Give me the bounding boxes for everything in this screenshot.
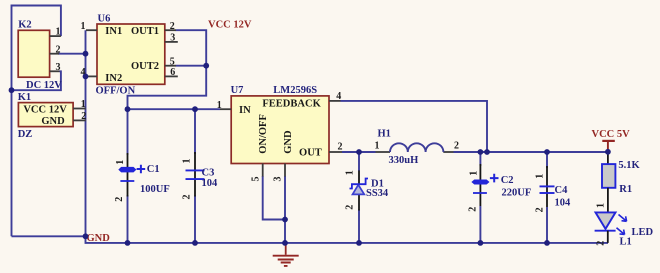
ground symbol (285, 243, 287, 255)
svg-text:1: 1 (375, 141, 380, 152)
wire U7 feedback loop (341, 101, 488, 152)
svg-text:IN1: IN1 (105, 26, 122, 37)
node GND left jog junction (83, 233, 89, 239)
svg-text:1: 1 (182, 159, 193, 164)
node C2 top junction (478, 149, 484, 155)
svg-text:FEEDBACK: FEEDBACK (262, 98, 321, 109)
svg-text:2: 2 (534, 207, 545, 212)
svg-text:1: 1 (81, 21, 86, 32)
svg-text:2: 2 (182, 195, 193, 200)
U6 pin 3 (165, 41, 178, 43)
switch U6 (97, 24, 165, 84)
svg-text:1: 1 (81, 99, 86, 110)
node VCC5V junction (605, 149, 611, 155)
U6 pin 2 (165, 29, 176, 31)
svg-text:100UF: 100UF (140, 184, 170, 195)
wire GND left horizontal (12, 235, 86, 237)
svg-text:R1: R1 (619, 184, 632, 195)
svg-text:ON/OFF: ON/OFF (258, 114, 269, 154)
svg-text:3: 3 (170, 33, 175, 44)
U7 pin 3 (284, 164, 286, 177)
U6 pin 1 (86, 29, 97, 31)
LED L1 (596, 212, 616, 229)
capacitor C3 104 (194, 152, 196, 197)
wire U6 pin2 OUT1 down-left to 12V rail (128, 30, 207, 109)
svg-text:DC 12V: DC 12V (26, 80, 62, 91)
svg-text:LED: LED (632, 227, 654, 238)
svg-text:5: 5 (170, 56, 175, 67)
svg-text:C2: C2 (501, 175, 514, 186)
K1 pin 2 (73, 119, 86, 121)
svg-text:H1: H1 (378, 128, 391, 139)
svg-text:2: 2 (56, 44, 61, 55)
K1 pin 1 (73, 108, 86, 110)
svg-text:K1: K1 (18, 92, 31, 103)
svg-text:5: 5 (251, 177, 262, 182)
U6 pin 4 (86, 75, 97, 77)
svg-text:1: 1 (115, 160, 126, 165)
wire C2 top lead (479, 152, 481, 166)
node D1 top junction (356, 149, 362, 155)
svg-text:1: 1 (56, 27, 61, 38)
node U6 pin5 junction (203, 63, 209, 69)
node D1 bottom junction (356, 240, 362, 246)
node U7 pins 5-3 junction (282, 217, 288, 223)
svg-text:104: 104 (202, 178, 219, 189)
wire U7 gnd pin down to rail (284, 176, 286, 243)
node C3 top junction (192, 106, 198, 112)
svg-text:VCC 12V: VCC 12V (208, 19, 252, 30)
svg-text:SS34: SS34 (366, 188, 389, 199)
wire K2 pin2 to mid vertical (58, 53, 86, 55)
svg-text:GND: GND (87, 233, 111, 244)
K2 pin 1 (50, 35, 61, 37)
wire D1 bottom lead (358, 210, 360, 243)
svg-text:C4: C4 (555, 185, 569, 196)
regulator U7 LM2596S (231, 96, 329, 164)
resistor R1 5.1K (607, 152, 609, 164)
wire 12V rail to U7 IN (128, 108, 221, 110)
node 12V rail / C1 junction (125, 106, 131, 112)
node K2 pin2 junction (83, 51, 89, 57)
svg-text:2: 2 (338, 142, 343, 153)
wire C3 top lead (194, 109, 196, 154)
svg-text:OUT2: OUT2 (131, 61, 159, 72)
svg-text:5.1K: 5.1K (618, 160, 640, 171)
node feedback junction (484, 149, 490, 155)
wire U7 on/off + gnd pins to ground (263, 176, 285, 220)
svg-text:104: 104 (555, 198, 572, 209)
svg-text:1: 1 (217, 100, 222, 111)
capacitor C1 100UF electrolytic (127, 153, 129, 197)
svg-text:LM2596S: LM2596S (273, 85, 317, 96)
node C4 top junction (544, 149, 550, 155)
svg-text:U6: U6 (98, 13, 111, 24)
svg-text:IN: IN (239, 105, 251, 116)
svg-text:OUT: OUT (299, 148, 322, 159)
node U6 pin4 junction (83, 74, 89, 80)
node ground junction (282, 240, 288, 246)
svg-text:U7: U7 (231, 85, 244, 96)
connector K1 (18, 103, 73, 127)
svg-text:OFF/ON: OFF/ON (96, 86, 136, 97)
U7 pin 5 (262, 164, 264, 177)
svg-text:220UF: 220UF (502, 188, 532, 199)
capacitor C4 104 (546, 166, 548, 207)
svg-text:VCC 5V: VCC 5V (592, 129, 631, 140)
wire GND bottom rail (86, 236, 609, 243)
LED arrows (619, 215, 627, 222)
wire D1 top lead (358, 152, 360, 171)
node C3 bottom junction (192, 240, 198, 246)
wire U6 pin5 to OUT vertical (176, 65, 207, 67)
svg-text:VCC 12V: VCC 12V (23, 104, 67, 115)
svg-text:330uH: 330uH (389, 155, 419, 166)
U6 pin 5 (165, 65, 176, 67)
U7 pin 2 (329, 151, 342, 153)
wire C4 bottom lead (546, 207, 548, 243)
svg-text:2: 2 (454, 141, 459, 152)
svg-text:OUT1: OUT1 (131, 26, 159, 37)
svg-text:DZ: DZ (18, 129, 33, 140)
svg-text:2: 2 (468, 207, 479, 212)
connector K2 (18, 30, 49, 77)
node C4 bottom junction (544, 240, 550, 246)
svg-text:2: 2 (344, 205, 355, 210)
svg-text:6: 6 (170, 67, 175, 78)
diode D1 SS34 schottky (358, 171, 360, 185)
K2 pin 3 (50, 70, 60, 72)
U7 pin 4 (329, 100, 341, 102)
svg-text:1: 1 (534, 174, 545, 179)
svg-text:GND: GND (41, 116, 65, 127)
wire OUT rail left segment (342, 151, 376, 153)
svg-text:2: 2 (114, 197, 125, 202)
svg-text:3: 3 (56, 62, 61, 73)
svg-text:2: 2 (170, 21, 175, 32)
wire C3 bottom lead (194, 196, 196, 243)
wire C2 bottom lead (479, 206, 481, 243)
capacitor C2 220UF electrolytic (479, 164, 481, 206)
wire C1 bottom lead (127, 195, 129, 243)
wire C4 top lead (546, 152, 548, 168)
svg-text:K2: K2 (18, 19, 31, 30)
svg-text:1: 1 (344, 170, 355, 175)
svg-text:C3: C3 (202, 168, 215, 179)
U6 pin 6 (165, 75, 178, 77)
svg-text:IN2: IN2 (105, 73, 122, 84)
svg-text:1: 1 (595, 203, 606, 208)
node C1 bottom junction (125, 240, 131, 246)
wire C1 top lead (127, 109, 129, 155)
svg-text:2: 2 (81, 111, 86, 122)
svg-text:4: 4 (336, 91, 341, 102)
svg-text:2: 2 (595, 241, 606, 246)
svg-text:1: 1 (468, 171, 479, 176)
svg-text:C1: C1 (147, 164, 160, 175)
node C2 bottom junction (478, 240, 484, 246)
inductor H1 330uH (376, 151, 391, 153)
node DC return junction (9, 87, 15, 93)
wire K2 pin3 return to left rail (12, 71, 61, 90)
wire mid vertical U6 inputs / K1 (85, 30, 87, 236)
U7 pin 1 (220, 108, 231, 110)
svg-text:GND: GND (283, 130, 294, 154)
K2 pin 2 (50, 53, 59, 55)
svg-text:3: 3 (273, 177, 284, 182)
wire OUT rail right segment (454, 151, 609, 153)
svg-text:L1: L1 (620, 236, 632, 247)
wire K2 pin1 to top-left loop down to GND (12, 6, 61, 237)
